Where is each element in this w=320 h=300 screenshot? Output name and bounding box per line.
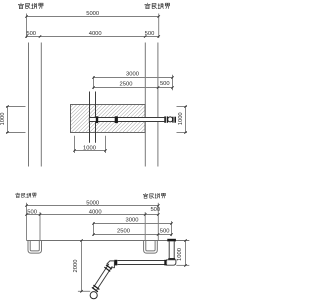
svg-text:500: 500 (160, 228, 170, 234)
svg-text:500: 500 (150, 207, 160, 213)
horizontal pipe (elev) (118, 261, 167, 265)
nozzle flange c (plan) (172, 117, 173, 123)
dimension 3000 line (plan) (94, 77, 173, 79)
riser flange (elev) (168, 258, 175, 260)
label kanmin-boundary bottom-left (16, 193, 37, 198)
extension line left (elev) (26, 203, 28, 241)
elbow left (elev) (107, 261, 114, 268)
dimension 5000 line (elev) (27, 205, 159, 207)
tick marks elev dims E/F (92, 222, 172, 235)
extension line right-inner (elev) (144, 212, 146, 241)
svg-text:2500: 2500 (117, 228, 130, 234)
pipe body (plan) (89, 118, 164, 122)
svg-text:500: 500 (27, 209, 37, 215)
boundary line pair right (plan) (145, 43, 158, 167)
boundary line pair left (plan) (29, 43, 42, 167)
pipe flange 2 (plan) (115, 116, 118, 123)
dimension 1000 right (elev) (176, 241, 189, 266)
pipe flange 1 (plan) (96, 116, 98, 123)
dimension 500/4000/500 line (plan) (27, 36, 159, 38)
post pair lines through wall (90, 92, 96, 143)
extension left 3000 (elev) (93, 222, 95, 236)
dimension 2500/500 line (plan) (94, 87, 173, 89)
svg-text:3000: 3000 (126, 218, 139, 224)
svg-text:1000: 1000 (0, 113, 6, 126)
wall top line (elev) (27, 240, 190, 242)
riser pipe (elev) (169, 241, 174, 258)
dimension 1000 right side (plan) (177, 107, 188, 133)
svg-text:1000: 1000 (178, 112, 184, 125)
svg-text:2000: 2000 (73, 260, 79, 273)
dimension 2000 left (elev) (78, 241, 90, 292)
bracket right (elev) (144, 241, 158, 254)
label kanmin-boundary top-right (145, 3, 170, 9)
sloped pipe (elev) (93, 264, 112, 290)
tick marks 3000/2500 dims (plan) (92, 76, 173, 88)
dimension 1000 left side (plan) (6, 107, 26, 133)
nozzle end cap (plan) (174, 117, 176, 123)
extension line right (elev) (157, 203, 159, 241)
extension line right end 5000 (158, 14, 160, 39)
extension line left 3000 (plan) (93, 76, 95, 89)
slope flange bars near elbow (elev) (104, 264, 112, 272)
svg-text:1000: 1000 (177, 248, 183, 261)
nozzle flange a (plan) (164, 116, 166, 122)
riser cap (elev) (167, 239, 176, 242)
extension line right 3000 (plan) (172, 75, 174, 91)
svg-text:4000: 4000 (89, 209, 102, 215)
dimension 5000 line (plan) (27, 16, 159, 18)
svg-text:500: 500 (26, 31, 36, 37)
nozzle flange b (plan) (167, 116, 168, 122)
svg-text:5000: 5000 (86, 11, 99, 17)
svg-text:500: 500 (160, 81, 170, 87)
dimension 2500/500 line (elev) (94, 234, 172, 236)
tick marks plan dims (25, 15, 160, 37)
nozzle valve circle (plan) (168, 117, 173, 122)
slope end cap circle (elev) (90, 292, 97, 299)
svg-text:5000: 5000 (86, 200, 99, 206)
label kanmin-boundary bottom-right (143, 193, 165, 198)
pipe flange right (elev) (164, 260, 166, 266)
dimension 500/4000/500 line (elev) (27, 214, 159, 216)
wall hatched (plan) (71, 105, 146, 133)
tick marks elev dims C/D (25, 204, 159, 215)
dimension 3000 line (elev) (94, 223, 172, 225)
svg-text:1000: 1000 (83, 145, 96, 151)
slope end flange bars (elev) (92, 285, 100, 293)
svg-text:3000: 3000 (126, 72, 139, 78)
extension line left-inner (elev) (39, 212, 41, 241)
svg-text:4000: 4000 (89, 31, 102, 37)
label kanmin-boundary top-left (18, 3, 43, 9)
svg-text:2500: 2500 (120, 82, 133, 88)
dimension 1000 below wall (plan) (75, 136, 106, 153)
extension line left end 5000 (26, 14, 28, 39)
elbow right (elev) (167, 260, 176, 265)
pipe flange left (elev) (114, 260, 117, 266)
bracket left (elev) (28, 241, 42, 254)
extension right 3000 (elev) (171, 221, 173, 236)
svg-text:500: 500 (145, 31, 155, 37)
